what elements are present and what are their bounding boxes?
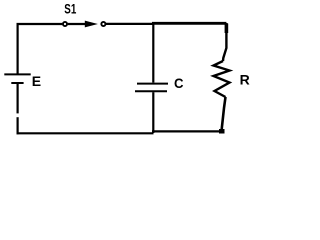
wire bottom left segment [17,132,154,134]
switch S1 right contact circle [101,22,105,26]
battery E negative plate [11,82,23,84]
wire top right segment [106,23,153,25]
svg-text:R: R [240,71,250,87]
switch S1 arrow blade [85,21,98,28]
wire top far-right segment [152,22,226,25]
capacitor bottom lead [152,92,154,133]
battery E positive plate [4,73,30,75]
wire left lower (below gap) [17,117,19,134]
svg-text:C: C [174,75,184,91]
capacitor C top plate [137,83,168,85]
wire between switch contacts [68,23,86,25]
wire top left segment [17,23,63,25]
switch S1 left contact circle [63,22,67,26]
resistor top corner thick stub [225,24,229,34]
capacitor C bottom plate [135,90,167,92]
wire left upper [17,23,19,74]
resistor bottom lead [222,97,226,131]
svg-text:S1: S1 [64,0,76,16]
wire left lower (above gap) [17,84,19,113]
svg-text:E: E [32,73,41,89]
wire bottom right segment [152,130,222,132]
resistor top lead (jagged vertical) [223,23,226,61]
junction blob bottom right [219,129,225,134]
capacitor top lead [152,24,154,83]
resistor R zigzag [214,61,230,97]
